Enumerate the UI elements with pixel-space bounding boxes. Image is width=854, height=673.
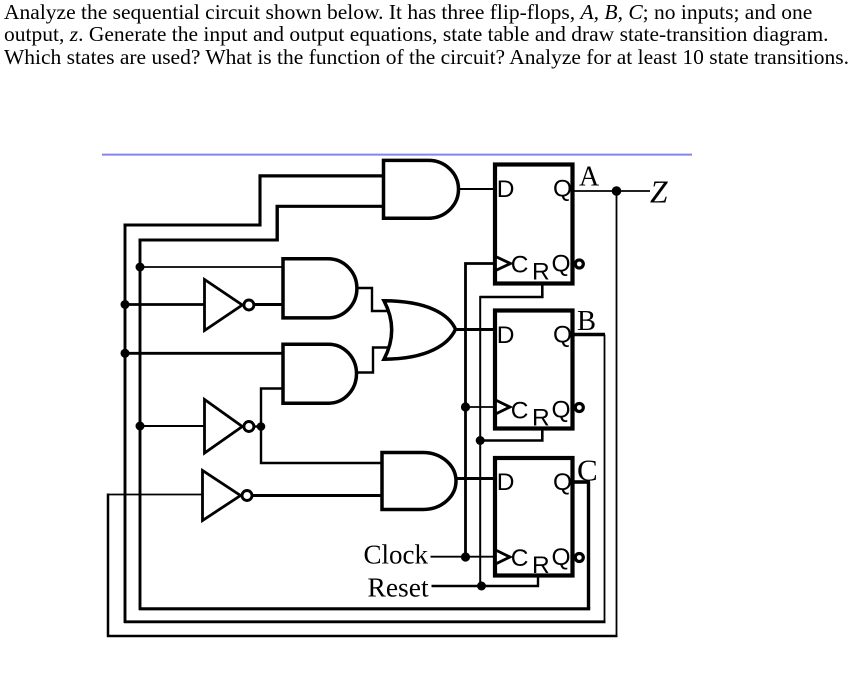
inverter U3 (NOT A)	[203, 471, 241, 521]
wire inverter U3 output to AND G4 input 2	[253, 494, 382, 497]
wire C-net: bottom horizontal	[139, 607, 590, 610]
wire AND G1 output to FFA D	[457, 188, 497, 190]
flip-flop C box	[495, 458, 573, 576]
svg-text:C: C	[511, 252, 529, 279]
wire A-net: FFA Q to Z label	[574, 190, 650, 192]
wire C-net: riser to AND G1 input 2	[276, 205, 279, 242]
svg-text:Q: Q	[553, 322, 572, 349]
wire B-net: branch to inverter U1 input	[125, 303, 206, 306]
wire B-net: riser to AND G1 input 1	[258, 175, 261, 227]
wire B-net: branch to AND gate G3 input 1	[125, 352, 285, 355]
wire B-net: right vertical down	[604, 335, 606, 622]
svg-text:C: C	[577, 453, 598, 488]
wire clock from label to FFC	[431, 556, 498, 558]
wire reset stub FFB	[480, 427, 543, 441]
wire inverter U1 output to AND G2 input 2	[254, 303, 285, 306]
svg-text:D: D	[497, 322, 515, 349]
svg-text:Q: Q	[553, 469, 572, 496]
flip-flop B clock triangle	[496, 400, 511, 414]
wire AND G3 output to OR G5 input 2	[355, 348, 389, 373]
svg-text:D: D	[497, 176, 515, 203]
node at inverter U2 output	[257, 422, 266, 431]
horizontal rule (blue)	[102, 154, 692, 156]
svg-text:Clock: Clock	[364, 539, 429, 569]
wire B-net: top horizontal	[124, 224, 261, 227]
wire B-net: AND G1 input 1	[259, 174, 385, 177]
wire reset vertical	[479, 296, 481, 586]
node on B-net at AND G3 branch	[121, 349, 130, 358]
svg-text:A: A	[579, 162, 600, 193]
svg-text:Q: Q	[552, 544, 571, 571]
wire C-net: top horizontal	[139, 239, 278, 242]
svg-text:R: R	[532, 552, 550, 579]
node reset at FFC	[477, 582, 486, 591]
wire U2 output to AND G3 input 2	[261, 389, 285, 429]
node clock at FFC	[461, 552, 470, 561]
wire B-net: left vertical	[124, 224, 127, 623]
wire C-net: right vertical down	[587, 482, 590, 609]
node on C-net at inverter U2 input	[136, 422, 145, 431]
svg-text:C: C	[511, 545, 529, 572]
svg-text:D: D	[497, 469, 515, 496]
wire A-net: to inverter U3 input	[107, 494, 204, 496]
wire C-net: AND G1 input 2	[276, 205, 385, 208]
wire reset from label to FFC R	[432, 574, 539, 586]
and gate G3 (B·C')	[283, 344, 357, 403]
flip-flop B Qbar bubble	[575, 404, 583, 412]
wire C-net: branch to inverter U2 input	[140, 425, 204, 427]
wire U2 output to AND G4 input 1	[261, 425, 382, 463]
wire C-net: branch to AND gate G2 input 1	[140, 266, 285, 268]
wire clock stub FFB	[466, 406, 498, 408]
flip-flop A clock triangle	[496, 257, 511, 271]
svg-text:Z: Z	[650, 175, 668, 210]
node clock at FFB	[461, 402, 470, 411]
inverter U2 (NOT C)	[205, 400, 243, 454]
wire B-net: bottom horizontal	[124, 620, 606, 623]
flip-flop B box	[495, 311, 573, 429]
wire reset stub FFA	[480, 282, 543, 297]
wire A-net: right vertical down	[616, 191, 618, 636]
wire A-net: left vertical	[107, 494, 110, 638]
flip-flop A Qbar bubble	[575, 260, 583, 268]
wire C-net: left vertical	[139, 239, 142, 610]
node A/Z junction	[612, 186, 622, 196]
node reset at FFB stub	[476, 436, 485, 445]
or gate G5 (xor sum)	[384, 301, 456, 359]
wire C-net: FFC Q output stub	[574, 480, 590, 484]
svg-text:R: R	[532, 405, 550, 432]
inverter U1 (NOT B)	[205, 280, 243, 331]
node on C-net at AND G2 branch	[136, 263, 145, 272]
wire AND G2 output to OR G5 input 1	[354, 288, 388, 311]
wire OR G5 output to FFB D	[454, 328, 497, 331]
wire clock net vertical with stub to FFA	[466, 264, 498, 558]
wire inverter U2 output branch vertical	[254, 425, 261, 427]
and gate G1 (top, D_A = B·C)	[384, 160, 459, 218]
wire A-net: bottom horizontal	[107, 635, 618, 638]
svg-text:Reset: Reset	[368, 572, 429, 603]
svg-text:Q: Q	[553, 176, 572, 203]
and gate G2 (B'·C)	[283, 259, 357, 318]
flip-flop C Qbar bubble	[575, 554, 583, 562]
svg-text:R: R	[532, 259, 550, 286]
svg-text:B: B	[577, 306, 596, 337]
flip-flop C clock triangle	[496, 550, 511, 564]
flip-flop A box	[495, 165, 573, 284]
wire AND G4 output to FFC D	[455, 477, 498, 480]
svg-text:Q: Q	[552, 251, 571, 278]
svg-text:Q: Q	[552, 397, 571, 424]
svg-text:C: C	[511, 398, 529, 425]
wire B-net: FFB Q output stub	[574, 333, 605, 337]
node on B-net at inverter U1 input	[121, 300, 130, 309]
and gate G4 (A'·C')	[382, 453, 456, 510]
